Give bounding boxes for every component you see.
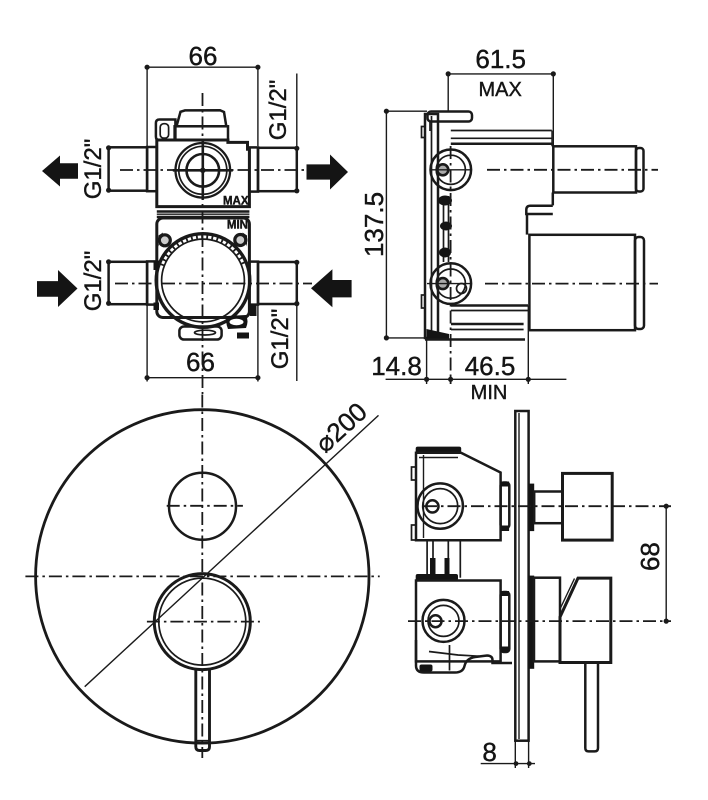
diverter port outer ring (176, 143, 231, 198)
lower port inner plug arc (457, 284, 467, 294)
union flange lower-right (249, 262, 258, 305)
diameter leader line (85, 415, 379, 686)
union flange upper-left (147, 147, 157, 191)
bracket bottom bump (422, 295, 426, 308)
mid section line 4 (459, 540, 461, 578)
left bump upper (412, 467, 417, 480)
lower flange stub (501, 592, 510, 652)
handle bevel inner line (560, 579, 575, 610)
upper port grub circle (426, 500, 438, 512)
port crosshair horizontal (173, 169, 233, 172)
body right edge step (552, 193, 555, 206)
svg-text:G1/2": G1/2" (80, 251, 107, 312)
flow arrow upper-left (outlet, points left) (42, 156, 78, 187)
left bump lower (412, 525, 417, 540)
dimension 66 top (145, 41, 261, 146)
upper stub end cap (636, 148, 644, 192)
upper port inner ring (423, 489, 458, 524)
lower port grub hole (437, 278, 448, 289)
cap gap line (419, 457, 458, 459)
upper port grub hole (437, 164, 448, 175)
svg-text:MAX: MAX (479, 79, 522, 101)
lower port outer ring (423, 600, 465, 642)
valve upper body block (157, 140, 250, 207)
bottom tab slot (195, 330, 216, 335)
body bottom step line 2 (451, 329, 524, 331)
max plaster line 1 (451, 130, 552, 132)
serration arc on housing ring (162, 236, 245, 265)
mounting plate (wall bracket) (425, 114, 438, 338)
diverter knob circle (169, 473, 236, 540)
flow arrow upper-right (outlet, points right) (307, 155, 349, 190)
handle lever (196, 669, 210, 751)
svg-text:137.5: 137.5 (359, 192, 389, 257)
svg-text:46.5: 46.5 (465, 351, 516, 381)
dimension 68 (635, 504, 669, 624)
wall plate side view (515, 411, 528, 741)
valve body lower cap (416, 574, 458, 581)
junction band upper line (157, 210, 250, 213)
protrusion hole (160, 124, 168, 138)
cartridge housing outer circle (156, 234, 250, 328)
plaster lines right end (551, 131, 553, 147)
valve body upper block (416, 453, 501, 541)
horizontal centerline plate (25, 575, 379, 577)
mid dark band 2 (445, 558, 450, 578)
label G1/2" lower-left (80, 251, 111, 312)
centerline lower stub (485, 283, 658, 285)
screw upper-left (159, 235, 170, 246)
bracket top tab (428, 112, 473, 122)
mid section line 2 (432, 540, 434, 578)
svg-text:61.5: 61.5 (475, 44, 526, 74)
mixer handle inner circle (159, 578, 246, 665)
body edge to lower stub (526, 214, 529, 235)
label G1/2" upper-right (265, 74, 299, 194)
lip shelf (526, 206, 553, 214)
bottom tab (179, 327, 221, 340)
centerline upper stub (487, 169, 658, 171)
mid section line 1 (426, 540, 428, 578)
bottom-right notch (226, 315, 247, 329)
upper port cross line (431, 169, 471, 171)
body bottom inner line (429, 652, 479, 657)
lower port grub circle (430, 615, 442, 627)
trim plate circle d200 (36, 410, 369, 743)
valve body upper cap (416, 447, 462, 453)
centerline knob (424, 505, 671, 507)
valve body lower block (416, 581, 501, 662)
lower port inner ring (428, 605, 459, 636)
cartridge housing inner circle (162, 239, 245, 322)
upper flange cap top (501, 482, 509, 487)
upper flange stub (501, 483, 510, 529)
diverter port middle ring (179, 146, 227, 194)
svg-text:G1/2": G1/2" (267, 309, 294, 370)
lower cartridge housing stub (529, 235, 635, 330)
pipe stub upper-left (109, 147, 148, 190)
body bottom divider (449, 645, 451, 671)
upper port inner ring (436, 155, 465, 184)
upper port outer ring (431, 150, 472, 191)
horizontal centerline upper ports (120, 169, 306, 171)
pipe stub upper-right (258, 148, 297, 191)
wall plate inner line (518, 413, 520, 739)
svg-text:G1/2": G1/2" (265, 80, 292, 141)
cast lug mid (440, 222, 452, 231)
upper knob stem (534, 492, 562, 524)
port center dot (200, 168, 206, 174)
svg-text:MAX: MAX (223, 196, 249, 208)
left edge lug upper (154, 261, 160, 271)
lower stub end cap (635, 237, 644, 329)
handle body with bevel (560, 578, 611, 662)
valve lower body block (157, 218, 250, 318)
lower flange cap top (501, 591, 509, 596)
upper outlet stub (553, 146, 636, 192)
mid section line 3 (447, 540, 449, 578)
dimension 137.5 (359, 109, 428, 341)
screw tab upper-left (159, 233, 164, 247)
upper sleeve dark band (529, 484, 535, 531)
mixer handle outer circle (154, 574, 250, 670)
upper port outer ring (418, 483, 463, 528)
bracket top bump (422, 127, 426, 138)
handle lever rod (585, 663, 598, 752)
screw tab upper-right (243, 233, 248, 247)
lower port cross line (427, 283, 471, 285)
flow arrow lower-left (inlet, points right) (37, 270, 78, 307)
screw upper-right (235, 235, 246, 246)
tab to plate connector (429, 122, 431, 132)
pipe stub lower-right (258, 262, 297, 304)
svg-text:G1/2": G1/2" (80, 139, 107, 200)
junction band mid line (157, 213, 250, 215)
mounting plate inner line (431, 116, 433, 336)
vertical centerline (202, 93, 204, 394)
lower port inner ring (436, 269, 465, 298)
lever end line (196, 740, 210, 742)
vertical centerline plate (201, 395, 203, 759)
handle adapter (534, 578, 560, 662)
cartridge boss line pair (451, 304, 528, 307)
label G1/2" upper-left (80, 139, 111, 200)
port crosshair vertical (202, 141, 205, 200)
body bottom step line 1 (451, 323, 524, 326)
pipe stub lower-left (109, 262, 148, 304)
centerline handle (408, 620, 671, 622)
dimension 66 bottom (145, 305, 261, 382)
right edge lug (250, 304, 257, 316)
svg-text:8: 8 (482, 737, 496, 767)
mid dark band 1 (430, 558, 436, 578)
lower flange cap bottom (501, 647, 509, 653)
svg-text:MIN: MIN (471, 382, 508, 404)
svg-text:66: 66 (186, 347, 215, 377)
centerline mixer handle (147, 621, 260, 623)
cast lug below upper port (438, 196, 452, 206)
lower sleeve dark band (529, 576, 535, 669)
bottom foot wedge (427, 329, 450, 340)
bottom dimensions 14.8 / 46.5 MIN (371, 306, 566, 405)
flow arrow lower-right (inlet, points left) (311, 269, 352, 307)
dimension 61.5 MAX (446, 44, 556, 146)
svg-text:14.8: 14.8 (371, 351, 422, 381)
max plaster line 3 (451, 143, 553, 146)
union flange lower-left (147, 261, 157, 304)
union flange upper-right (249, 147, 258, 191)
junction band lower line (157, 216, 250, 219)
body bottom edge (425, 338, 525, 341)
lower port outer ring (431, 263, 472, 304)
upper block inner edge line (423, 455, 425, 538)
notch highlight (230, 319, 244, 325)
svg-text:MIN: MIN (227, 220, 248, 232)
cast body contour between ports (443, 196, 445, 262)
upper body step under cap (175, 126, 228, 140)
upper body left protrusion (156, 120, 176, 140)
centerline diverter knob (167, 505, 243, 507)
upper body top cap (177, 110, 227, 126)
diverter port inner ring (187, 154, 220, 187)
bottom-right lug (237, 333, 249, 339)
label G1/2" lower-right (267, 260, 299, 381)
horizontal centerline lower ports (115, 283, 312, 285)
upper flange cap bottom (501, 526, 509, 532)
vertical centerline through ports (450, 146, 452, 384)
max plaster line 2 (451, 137, 552, 139)
cast lug above lower port (439, 248, 451, 258)
left edge lug lower (154, 303, 160, 311)
body bottom corner blob (420, 665, 433, 672)
body bottom profile (416, 640, 512, 673)
svg-text:68: 68 (635, 542, 665, 571)
dimension 8 (481, 737, 535, 768)
diverter knob side (563, 473, 613, 540)
